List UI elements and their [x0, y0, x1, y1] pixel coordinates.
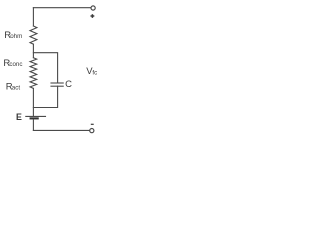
- capacitor C plates: [51, 82, 63, 84]
- wire left rail upper: [32, 8, 34, 26]
- svg-text:act: act: [12, 85, 21, 92]
- wire branch to capacitor: [33, 53, 57, 83]
- wire bottom horizontal: [33, 129, 89, 131]
- svg-text:fc: fc: [92, 69, 97, 76]
- wire left rail between Rohm and Rconc: [32, 44, 34, 58]
- svg-text:conc: conc: [9, 61, 22, 68]
- minus sign: [91, 123, 94, 125]
- battery E short thick plate: [31, 117, 38, 119]
- resistor Rohm: [30, 26, 37, 44]
- svg-text:E: E: [16, 112, 22, 122]
- terminal - (open circle): [90, 129, 94, 133]
- wire top horizontal: [33, 7, 91, 9]
- wire capacitor bottom lead: [33, 86, 57, 107]
- svg-text:ohm: ohm: [10, 33, 22, 40]
- wire battery to bottom: [32, 120, 34, 131]
- battery E long plate: [26, 115, 46, 117]
- svg-text:C: C: [65, 79, 72, 90]
- terminal + (open circle): [91, 6, 95, 10]
- resistor Rconc: [30, 58, 37, 73]
- plus sign: [91, 14, 95, 18]
- wire left rail below Ract: [32, 88, 34, 116]
- resistor Ract: [30, 73, 37, 89]
